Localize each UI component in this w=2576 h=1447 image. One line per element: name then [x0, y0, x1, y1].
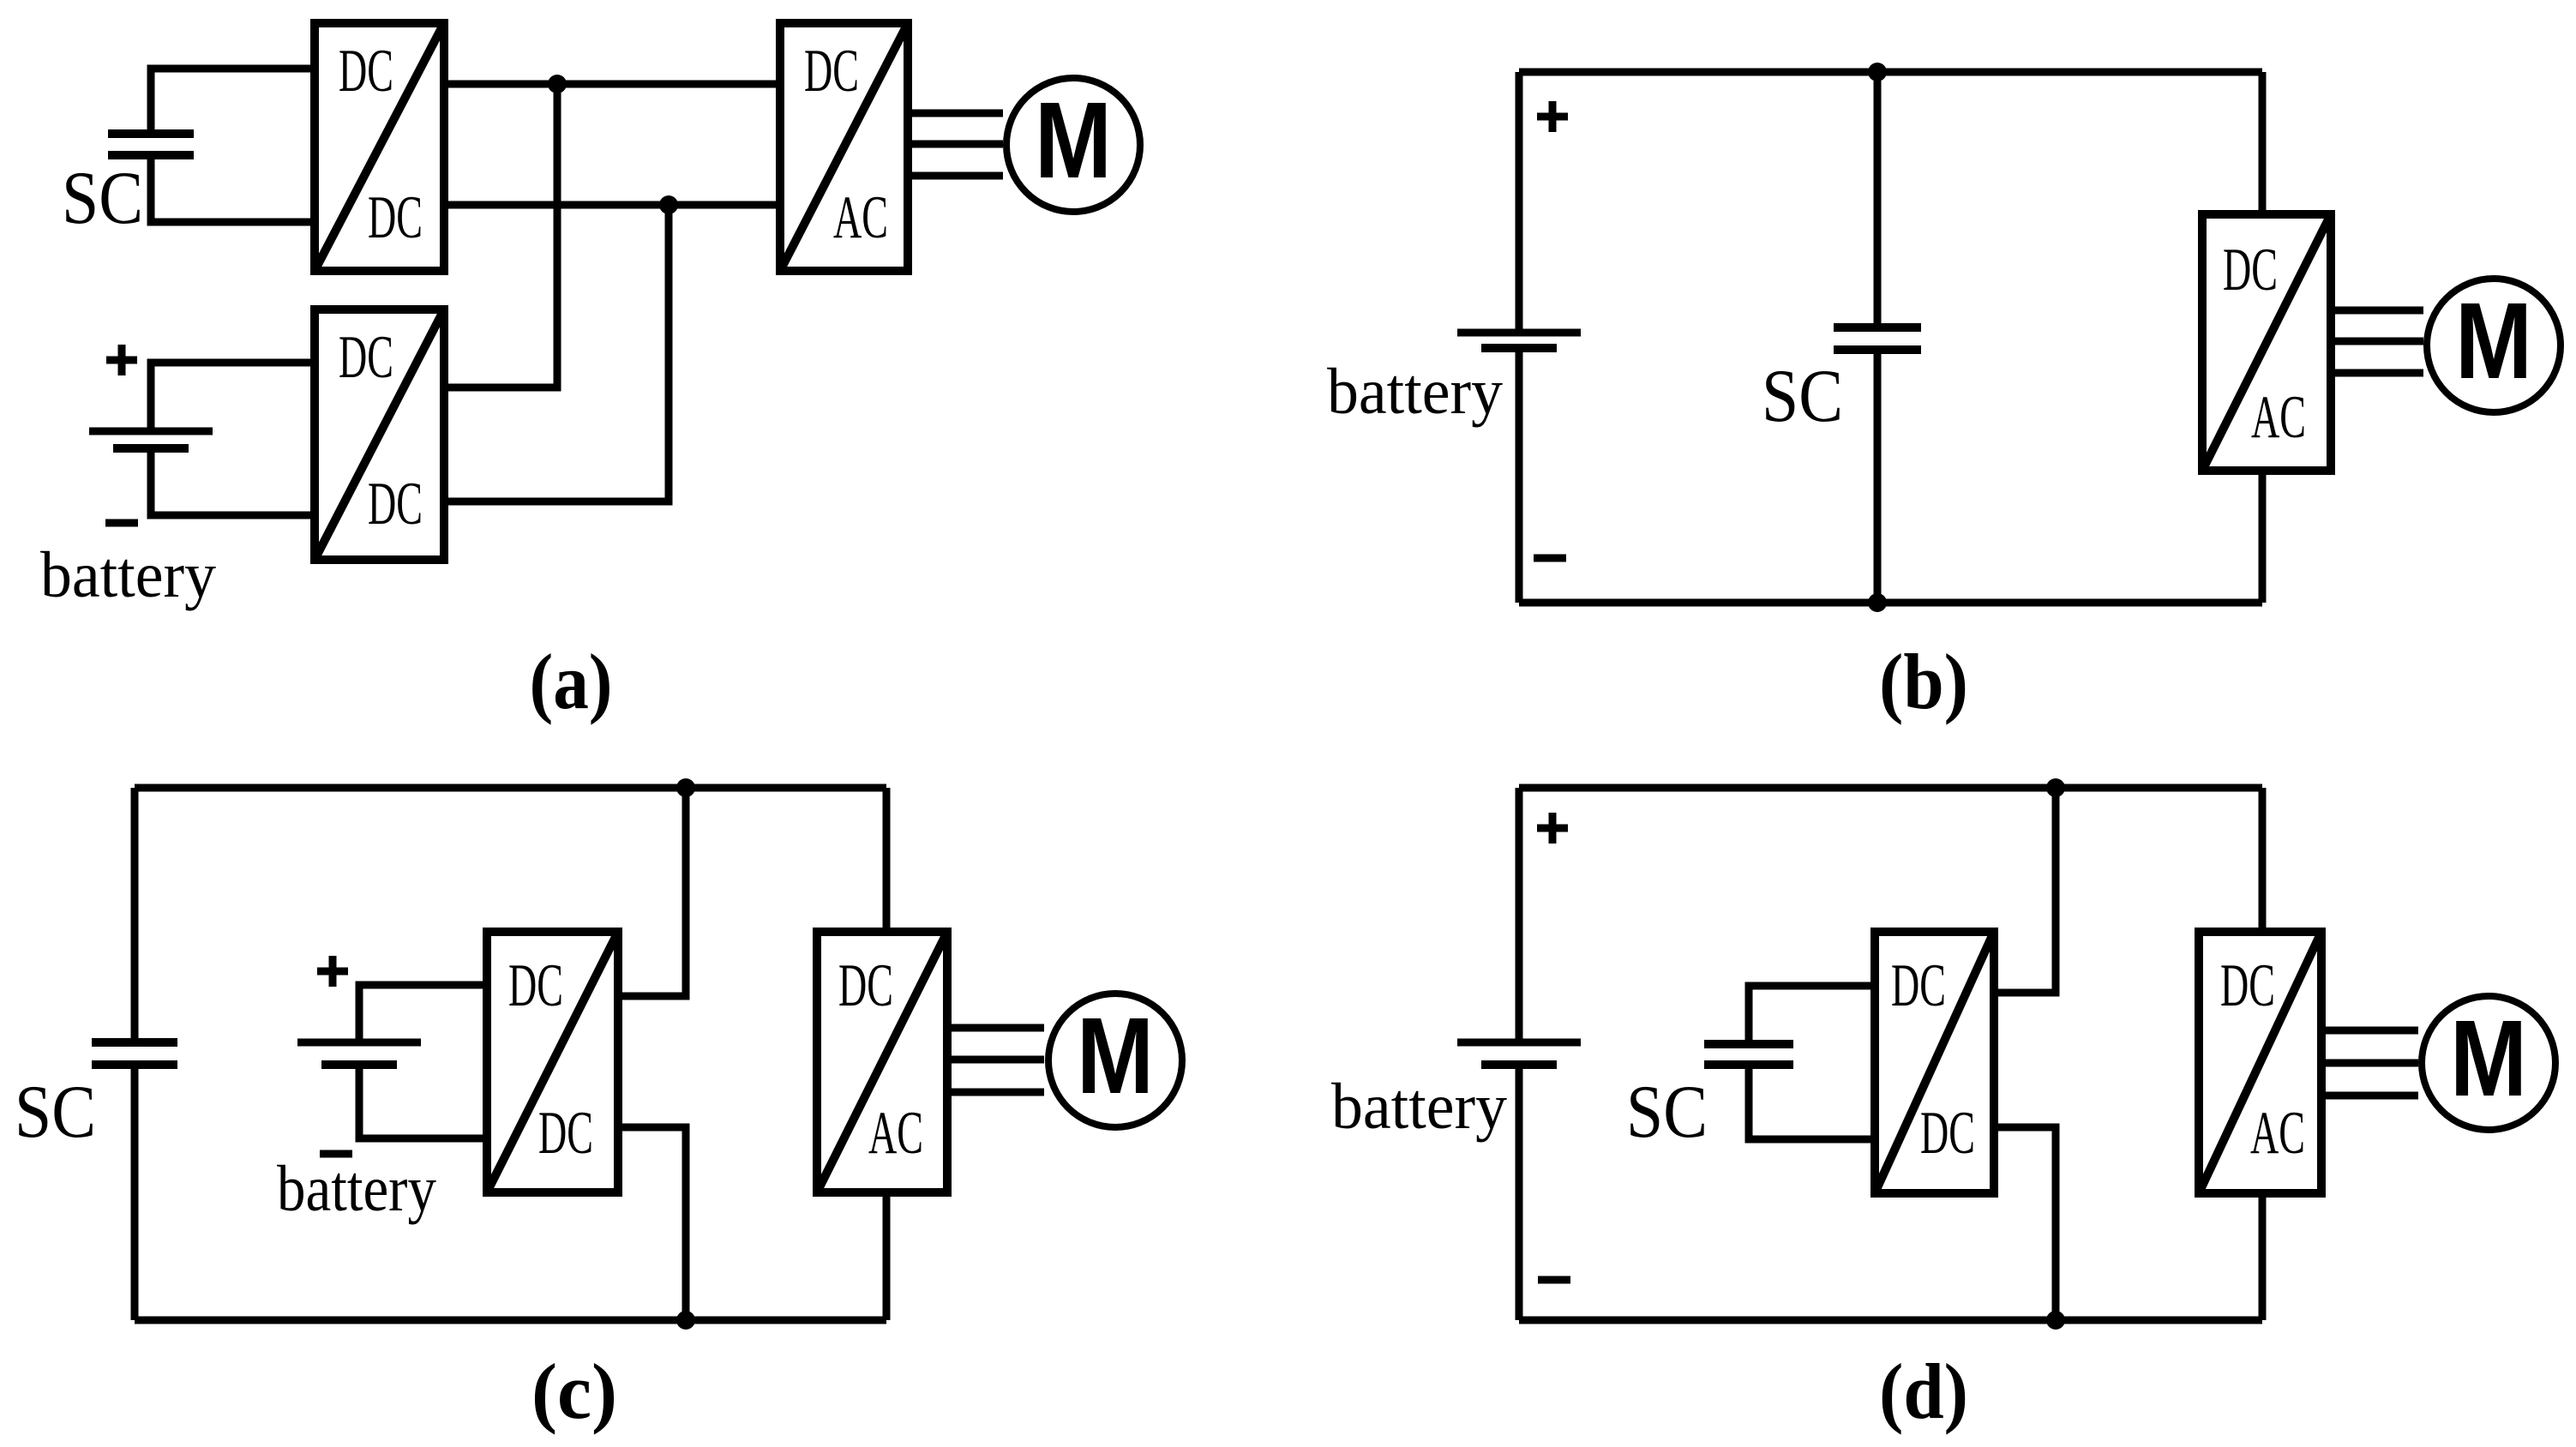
svg-text:SC: SC — [15, 1071, 96, 1154]
svg-text:DC: DC — [2220, 952, 2275, 1019]
svg-text:(c): (c) — [531, 1348, 617, 1435]
svg-text:SC: SC — [1762, 355, 1843, 438]
svg-text:AC: AC — [868, 1100, 923, 1167]
svg-text:DC: DC — [804, 38, 859, 105]
svg-text:DC: DC — [1891, 952, 1946, 1019]
svg-text:(a): (a) — [530, 638, 613, 725]
svg-text:(b): (b) — [1879, 638, 1968, 725]
svg-text:M: M — [1035, 80, 1112, 201]
svg-text:DC: DC — [838, 952, 893, 1019]
svg-text:DC: DC — [508, 952, 563, 1019]
svg-text:M: M — [2455, 280, 2532, 401]
svg-text:AC: AC — [833, 184, 888, 251]
svg-text:AC: AC — [2250, 1100, 2305, 1167]
svg-text:M: M — [2450, 998, 2527, 1119]
svg-text:battery: battery — [1327, 356, 1503, 428]
svg-text:(d): (d) — [1879, 1348, 1968, 1435]
svg-text:battery: battery — [1331, 1071, 1507, 1143]
svg-text:DC: DC — [339, 324, 393, 391]
svg-text:DC: DC — [368, 471, 423, 537]
svg-text:DC: DC — [1920, 1100, 1975, 1167]
svg-text:battery: battery — [277, 1153, 436, 1225]
svg-text:SC: SC — [62, 157, 143, 240]
svg-text:SC: SC — [1626, 1071, 1708, 1154]
svg-text:AC: AC — [2251, 384, 2306, 451]
svg-text:M: M — [1077, 995, 1154, 1116]
svg-text:DC: DC — [2223, 237, 2278, 303]
svg-text:DC: DC — [538, 1100, 593, 1167]
svg-text:DC: DC — [339, 38, 393, 105]
svg-text:battery: battery — [40, 539, 216, 611]
svg-text:DC: DC — [368, 184, 423, 251]
